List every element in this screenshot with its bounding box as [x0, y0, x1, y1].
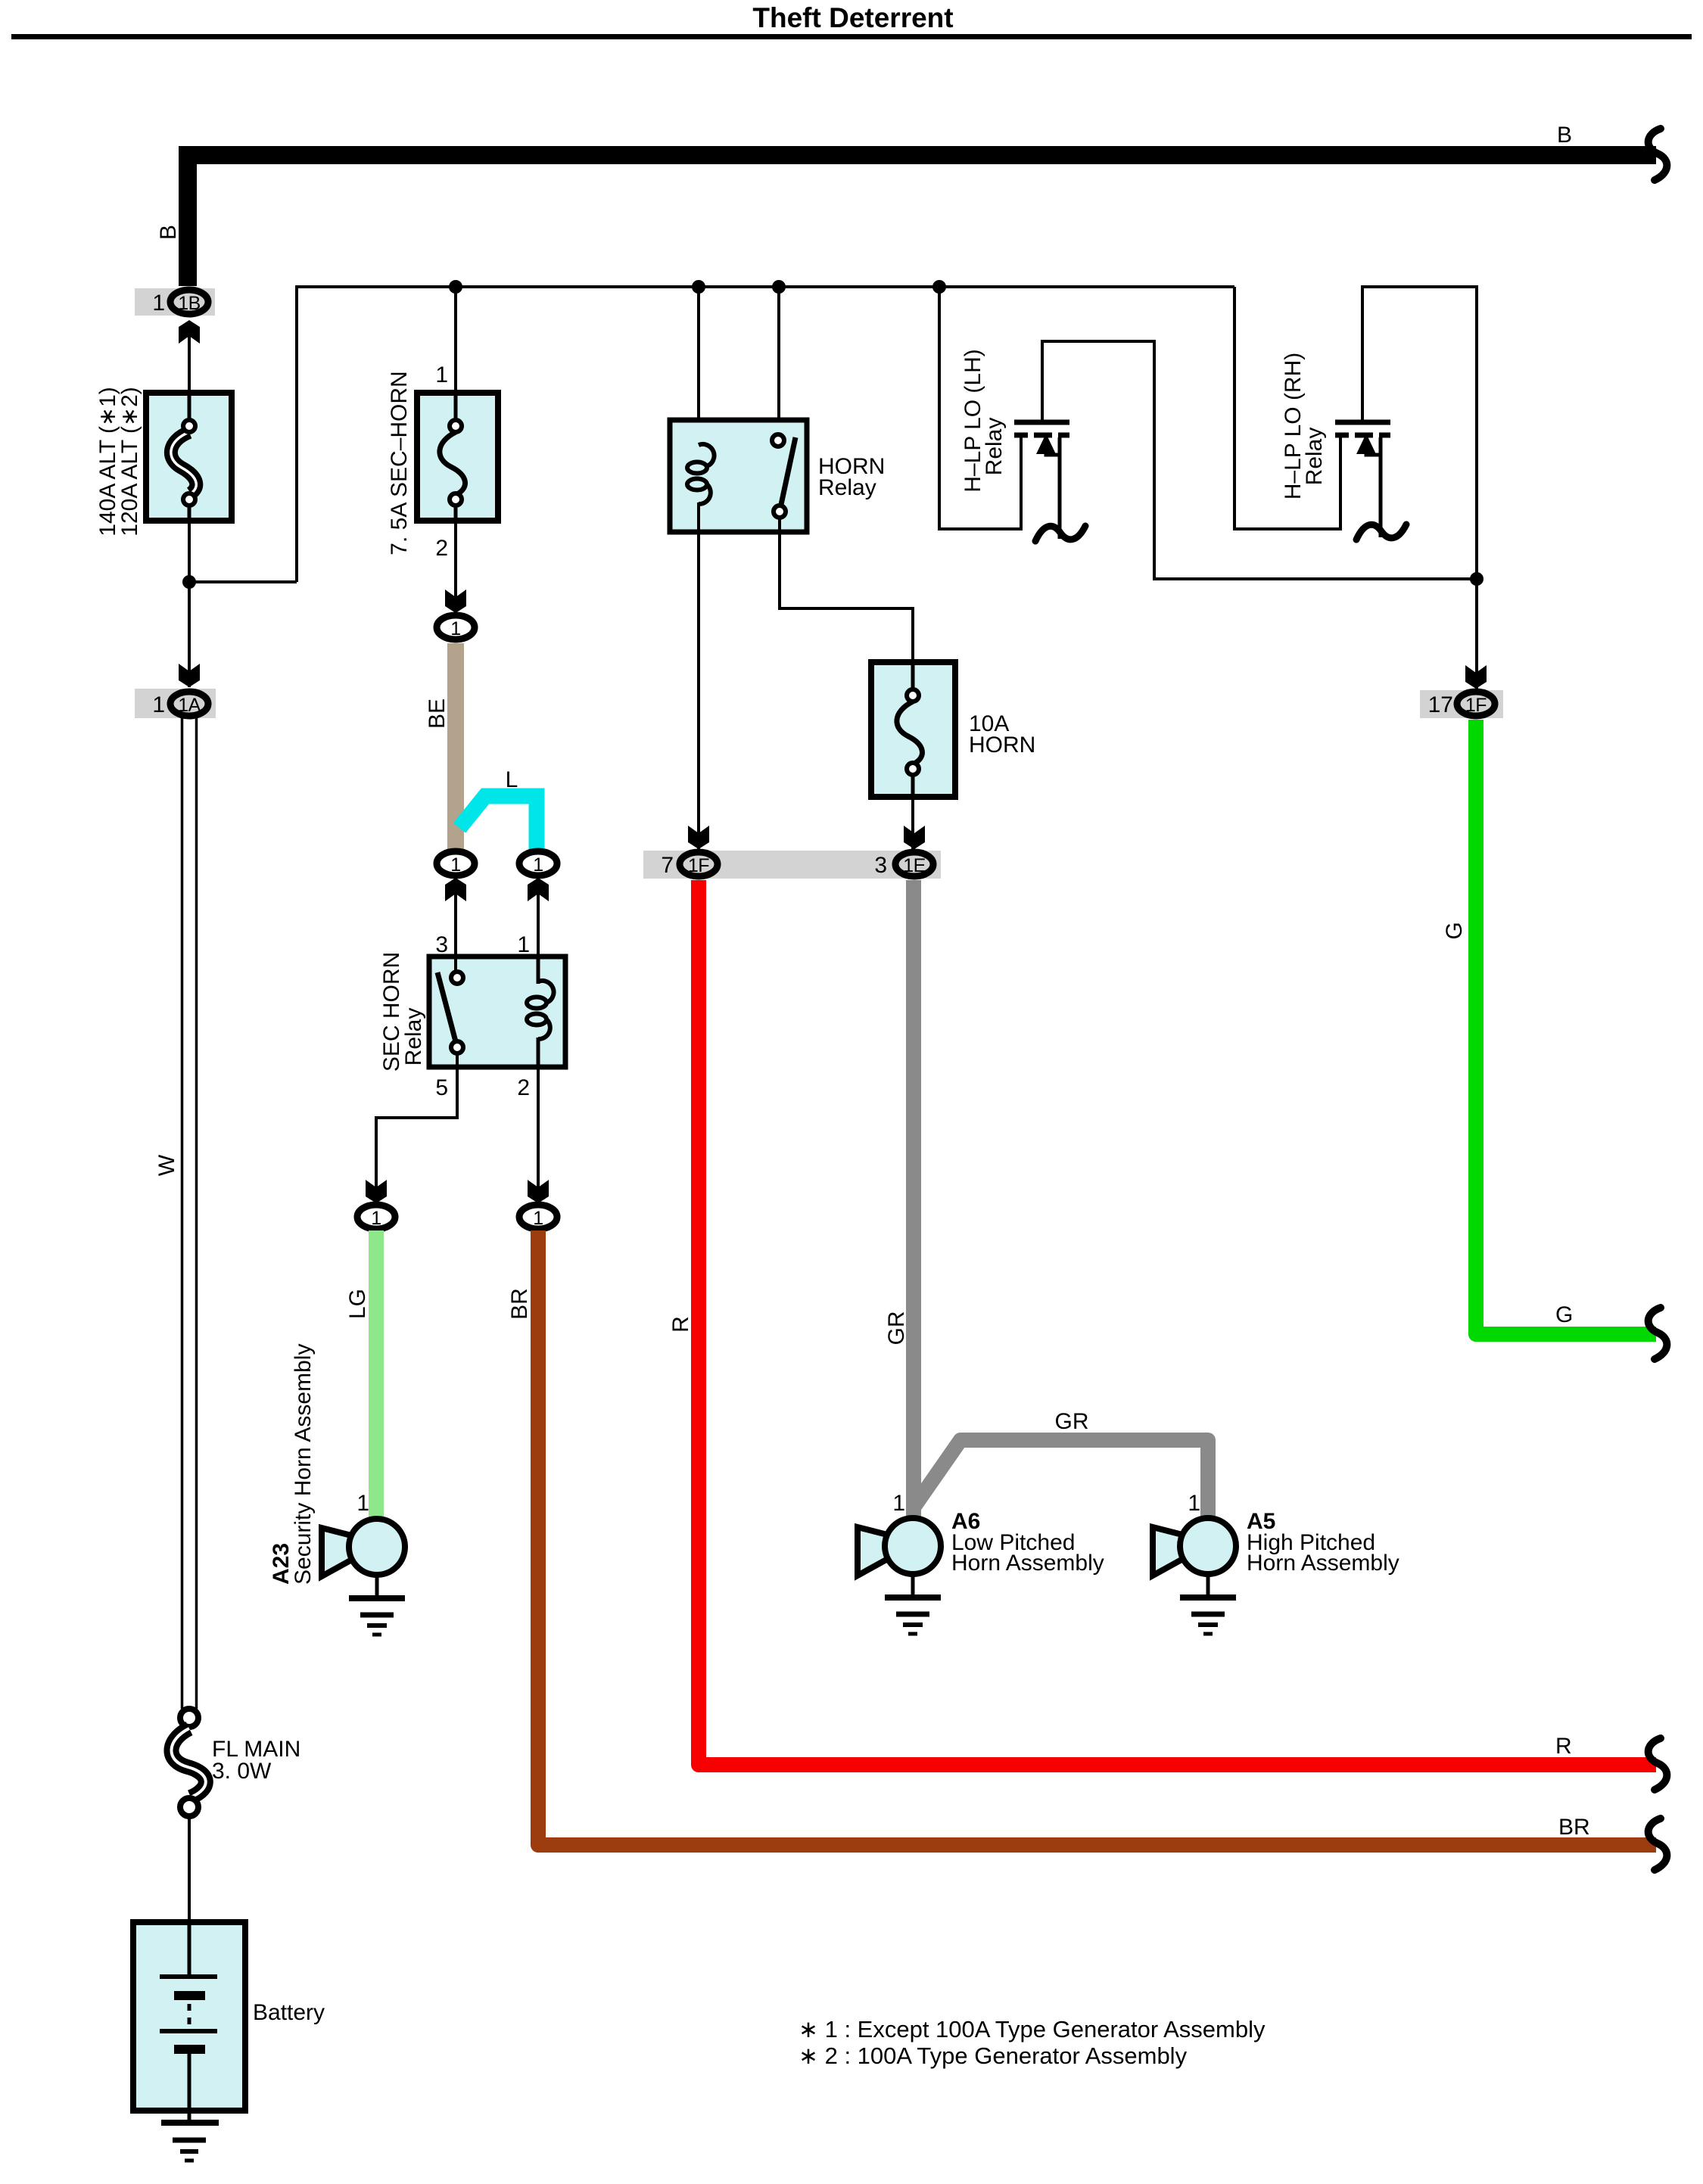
svg-text:HORN: HORN — [969, 733, 1035, 758]
svg-text:1: 1 — [356, 1491, 369, 1516]
svg-text:1E: 1E — [903, 855, 926, 876]
svg-text:BR: BR — [1558, 1815, 1590, 1840]
svg-text:Security Horn Assembly: Security Horn Assembly — [291, 1344, 316, 1585]
svg-text:B: B — [156, 225, 181, 240]
svg-text:1: 1 — [533, 854, 543, 876]
svg-text:1: 1 — [1188, 1491, 1200, 1516]
svg-text:1: 1 — [892, 1491, 905, 1516]
svg-text:Relay: Relay — [1302, 428, 1327, 486]
svg-text:BE: BE — [425, 698, 450, 729]
svg-text:1B: 1B — [178, 293, 201, 314]
svg-text:R: R — [1555, 1734, 1572, 1759]
svg-text:1: 1 — [371, 1208, 381, 1229]
svg-text:1F: 1F — [688, 855, 709, 876]
svg-text:120A ALT (∗2): 120A ALT (∗2) — [117, 387, 142, 536]
svg-text:1: 1 — [450, 854, 460, 876]
svg-text:1: 1 — [152, 692, 165, 717]
svg-text:GR: GR — [1055, 1409, 1089, 1434]
svg-text:Relay: Relay — [982, 418, 1007, 476]
svg-text:Battery: Battery — [253, 2000, 325, 2025]
svg-text:L: L — [506, 767, 518, 792]
svg-text:1: 1 — [533, 1208, 543, 1229]
svg-text:Horn Assembly: Horn Assembly — [951, 1551, 1104, 1576]
svg-text:BR: BR — [507, 1288, 532, 1320]
svg-text:∗ 2 : 100A Type Generator Asse: ∗ 2 : 100A Type Generator Assembly — [799, 2042, 1188, 2069]
svg-text:5: 5 — [435, 1075, 448, 1100]
svg-text:1: 1 — [517, 932, 530, 957]
svg-text:3: 3 — [874, 853, 887, 878]
svg-text:7: 7 — [661, 853, 674, 878]
svg-text:LG: LG — [345, 1289, 370, 1319]
svg-text:∗ 1 : Except 100A Type Generat: ∗ 1 : Except 100A Type Generator Assembl… — [799, 2016, 1266, 2042]
svg-text:7. 5A SEC–HORN: 7. 5A SEC–HORN — [387, 371, 412, 555]
svg-text:Horn Assembly: Horn Assembly — [1247, 1551, 1399, 1576]
svg-text:1: 1 — [435, 362, 448, 387]
svg-text:Relay: Relay — [818, 475, 876, 500]
svg-text:Theft Deterrent: Theft Deterrent — [752, 2, 953, 33]
svg-text:Relay: Relay — [401, 1008, 426, 1066]
svg-text:2: 2 — [435, 536, 448, 561]
svg-text:GR: GR — [884, 1311, 909, 1346]
svg-text:1: 1 — [450, 618, 460, 639]
svg-text:W: W — [154, 1154, 179, 1176]
svg-text:3: 3 — [435, 932, 448, 957]
svg-text:1F: 1F — [1465, 695, 1487, 716]
svg-text:G: G — [1555, 1302, 1573, 1327]
svg-text:2: 2 — [517, 1075, 530, 1100]
svg-text:17: 17 — [1428, 692, 1453, 717]
svg-text:G: G — [1442, 922, 1467, 939]
svg-text:B: B — [1557, 123, 1572, 148]
svg-text:R: R — [668, 1316, 693, 1333]
svg-text:1: 1 — [152, 291, 165, 316]
svg-text:3. 0W: 3. 0W — [212, 1759, 272, 1784]
svg-text:1A: 1A — [178, 695, 201, 716]
